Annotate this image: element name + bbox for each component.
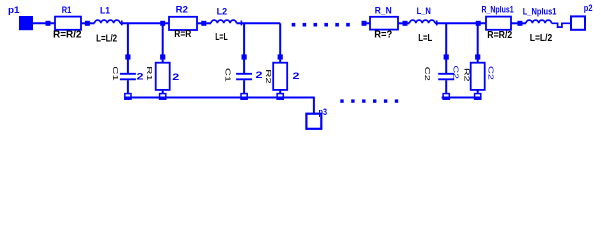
svg-text:p1: p1 (8, 5, 20, 16)
svg-text:L=L/2: L=L/2 (530, 33, 553, 44)
port p1 (19, 16, 33, 30)
svg-text:L=L/2: L=L/2 (96, 33, 117, 44)
svg-text:2: 2 (137, 71, 144, 81)
svg-text:C2: C2 (423, 67, 430, 81)
svg-text:C2: C2 (452, 66, 459, 80)
svg-text:L1: L1 (100, 6, 111, 17)
port p2 (571, 16, 585, 29)
svg-text:C1: C1 (111, 66, 118, 81)
wire R2 to L2 (197, 22, 211, 24)
inductor L_Nplus1 (526, 20, 552, 23)
pin node L2 left (201, 21, 206, 26)
pin node L_Nplus1 left (517, 21, 522, 26)
capacitor C2 shunt (243, 23, 245, 55)
pin junction node A (160, 21, 165, 26)
svg-text:R2: R2 (463, 68, 470, 82)
svg-text:R_Nplus1: R_Nplus1 (482, 4, 515, 15)
inductor L_N terminal tick (436, 21, 438, 26)
resistor R2 (169, 17, 197, 30)
inductor L_N (410, 20, 436, 23)
svg-text:2: 2 (293, 71, 300, 81)
pin node R1 left (46, 21, 51, 26)
svg-text:R_N: R_N (375, 5, 392, 16)
port p3 (306, 114, 321, 129)
wire L2 to node B (237, 22, 281, 24)
svg-text:R=R/2: R=R/2 (487, 30, 512, 41)
inductor L1 terminal tick (121, 21, 123, 26)
resistor R_Nplus1 (486, 17, 511, 30)
wire rail to p3 (313, 98, 315, 114)
ground rail right (442, 97, 482, 99)
svg-text:L_Nplus1: L_Nplus1 (523, 7, 557, 18)
svg-text:R2: R2 (264, 69, 271, 84)
svg-text:C2: C2 (487, 66, 494, 80)
svg-text:R1: R1 (62, 5, 72, 16)
inductor L1 (95, 20, 121, 23)
wire L1 to node A (120, 22, 169, 24)
resistor RNsh shunt (477, 23, 479, 55)
inductor L2 (211, 20, 237, 23)
svg-text:p3: p3 (319, 107, 328, 118)
svg-text:L2: L2 (217, 6, 228, 17)
ground rail left (125, 97, 315, 99)
svg-text:C1: C1 (224, 68, 231, 82)
resistor R1sh shunt (162, 23, 164, 55)
svg-text:L=L: L=L (418, 33, 432, 44)
pin node L1 left (85, 21, 90, 26)
svg-text:2: 2 (256, 70, 263, 80)
wire R_N stub (364, 22, 370, 24)
svg-text:R=R: R=R (174, 29, 192, 40)
pin junction node N (476, 21, 481, 26)
wire dip L_Nplus1 to p2 (552, 23, 571, 27)
capacitor C_N shunt (445, 23, 447, 55)
resistor R2sh shunt (279, 23, 281, 55)
wire R1 to L1 (81, 22, 95, 24)
svg-text:L=L: L=L (215, 32, 228, 43)
continuation dots bottom (340, 99, 343, 102)
resistor R_N (370, 17, 398, 30)
inductor L2 terminal tick (240, 21, 242, 26)
wire L_N to R_Nplus1 (435, 22, 486, 24)
svg-text:R=R/2: R=R/2 (53, 29, 82, 40)
svg-text:L_N: L_N (417, 6, 431, 17)
svg-text:R=?: R=? (374, 30, 392, 41)
svg-text:R1: R1 (145, 66, 152, 81)
wire R_Nplus1 to L_Nplus1 (511, 22, 526, 24)
continuation dots top (292, 23, 296, 27)
pin node R_N left (362, 21, 367, 26)
pin node L_N left (403, 21, 408, 26)
resistor R1 (55, 17, 81, 30)
svg-text:R2: R2 (176, 5, 188, 16)
wire p1 to R1 (33, 22, 55, 24)
svg-text:2: 2 (172, 72, 179, 82)
wire R_N to L_N (398, 22, 410, 24)
svg-text:p2: p2 (584, 3, 593, 14)
capacitor C1 shunt (127, 23, 129, 55)
